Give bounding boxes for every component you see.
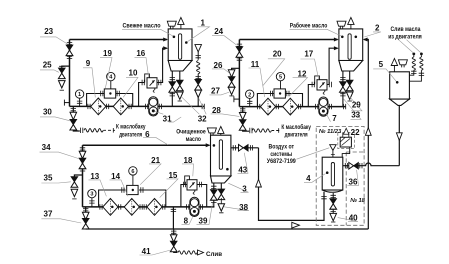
box 20 (pressure indicator block) [274, 89, 285, 98]
svg-text:масло: масло [186, 136, 201, 143]
wire: riser x=239.4 [238, 40, 240, 107]
text: fresh oil [123, 23, 161, 30]
valve 25 [58, 66, 65, 78]
svg-text:14: 14 [111, 172, 120, 181]
wire: main line 1 [64, 100, 204, 110]
valve 31 (tank 1 drain to main line) [169, 71, 176, 106]
filler cap tank 2 [337, 21, 346, 29]
text: oil drain from engine [388, 26, 422, 40]
valve 32 column (tank 1 drain to atmosphere) [176, 71, 183, 101]
spring hose B into tank 5 [409, 53, 424, 82]
wire: main line 3 [83, 206, 215, 208]
relief valve 17 [308, 46, 338, 106]
text: unit N 11/23 [319, 129, 342, 135]
svg-text:4: 4 [306, 174, 311, 183]
svg-text:38: 38 [239, 203, 248, 212]
filler cap tank 3 [207, 128, 216, 136]
valve 38 column (tank 3 drain) [218, 183, 225, 213]
wire: riser x=258.5 down to tank 4 bottom loop [259, 148, 327, 221]
svg-text:Свежее масло: Свежее масло [123, 23, 161, 30]
svg-text:24: 24 [214, 27, 223, 36]
svg-text:17: 17 [304, 50, 313, 59]
svg-text:33: 33 [351, 110, 360, 119]
wire: bypass over filters 13/14/15 [99, 187, 166, 207]
wire: top line 3 into tank 3 [83, 143, 211, 147]
svg-text:28: 28 [212, 106, 221, 115]
svg-text:26: 26 [214, 61, 223, 70]
vent tank 3 [218, 126, 224, 135]
svg-text:Очищенное: Очищенное [176, 128, 206, 135]
wire: branch to valve 25 [62, 66, 70, 68]
pump 7 [316, 97, 332, 116]
flow arrow up on return riser [365, 128, 371, 136]
valve 40 column (tank 4 drain) [330, 193, 337, 222]
svg-text:39: 39 [199, 217, 208, 226]
drain triangle 27 [228, 87, 235, 96]
gauge 3 [88, 189, 96, 206]
svg-text:2: 2 [375, 24, 380, 33]
svg-text:Рабочее масло: Рабочее масло [290, 23, 328, 30]
svg-text:3: 3 [90, 192, 93, 198]
svg-text:2: 2 [248, 92, 251, 98]
svg-text:23: 23 [44, 27, 53, 36]
dashed box around unit 22 [338, 133, 355, 149]
svg-text:18: 18 [184, 156, 193, 165]
wire: main line 3 to bottom header [171, 207, 176, 229]
svg-text:системы: системы [270, 151, 292, 158]
valve 36 line (tank 4 to risers) [343, 162, 400, 169]
wire: return riser x=368.3 to tank 2 [363, 38, 369, 230]
wire: tank 5 drain riser [398, 105, 400, 165]
filter 14 [124, 199, 142, 216]
svg-text:1: 1 [200, 18, 205, 27]
valve 30 (drop to engine tank hose) [70, 106, 80, 131]
svg-text:двигателя: двигателя [285, 131, 308, 138]
svg-text:32: 32 [198, 114, 207, 123]
relief valve 16 [139, 46, 168, 106]
wire: left riser x=69.5 [69, 40, 71, 107]
valve 29 column with drain 33 [346, 71, 353, 101]
pump 31 (section 1 pump) [146, 97, 162, 116]
valve 34 [79, 148, 86, 171]
svg-text:16: 16 [136, 49, 145, 58]
svg-text:Слив масла: Слив масла [391, 26, 421, 33]
svg-text:6: 6 [145, 130, 150, 139]
text: to engine oil tank (right) [281, 124, 311, 138]
tank 1 (fresh oil) [168, 29, 192, 71]
svg-text:1: 1 [78, 92, 81, 98]
svg-text:19: 19 [103, 49, 112, 58]
svg-text:Воздух от: Воздух от [269, 144, 295, 151]
svg-text:№ 18: № 18 [350, 198, 365, 204]
filler cap tank 5 [398, 60, 407, 68]
svg-text:22: 22 [351, 128, 360, 137]
svg-text:Слив: Слив [206, 251, 222, 258]
text: unit N 18 [350, 198, 365, 204]
wire: bypass over filters 9/10 [87, 91, 133, 107]
svg-text:40: 40 [349, 214, 358, 223]
svg-text:двигателя: двигателя [119, 131, 142, 138]
wire: riser x=82.5 [82, 145, 84, 207]
gauge 4 [107, 72, 115, 89]
svg-text:34: 34 [42, 143, 51, 152]
flow arrow down on tank 5 riser [396, 133, 402, 141]
svg-text:27: 27 [211, 86, 220, 95]
svg-text:29: 29 [352, 101, 361, 110]
vent of unit 22 [343, 128, 348, 134]
gauge 2 [246, 90, 254, 107]
hose: coil to engine oil tank (left) [81, 128, 115, 133]
hose: coil to drain (Sliv) [178, 250, 204, 255]
valve 35 [71, 177, 78, 188]
svg-text:21: 21 [151, 156, 160, 165]
filter 9 [88, 98, 109, 115]
svg-text:9: 9 [86, 59, 91, 68]
valve under tank 3 (to pump line) [210, 183, 217, 207]
text: purified oil [176, 128, 206, 143]
svg-text:36: 36 [349, 178, 358, 187]
gauge 5 [276, 72, 284, 89]
box 21 (pressure indicator block) [127, 185, 138, 194]
vent tank 1 [178, 17, 184, 29]
unit 22 (heater) [340, 133, 351, 157]
wire: top supply line to tank 2 [239, 38, 338, 42]
relief valve 18 [181, 176, 207, 207]
svg-text:30: 30 [43, 107, 52, 116]
wire: bottom return header [86, 228, 369, 230]
tank 3 (purified oil) [211, 135, 231, 183]
box 19 (pressure indicator block) [104, 89, 115, 98]
tank 5 (engine drain oil) [390, 72, 410, 106]
pump 8 [187, 197, 203, 216]
text: working oil [290, 23, 328, 30]
valve 26 [228, 70, 235, 88]
gauge 6 [129, 167, 137, 186]
air inlet funnel on tank 4 [330, 145, 336, 158]
hose: coil to engine oil tank (right) [250, 128, 279, 133]
text: to engine oil tank (left) [116, 124, 146, 139]
filler cap tank 1 [167, 21, 176, 29]
svg-text:8: 8 [184, 217, 189, 226]
svg-text:К маслобаку: К маслобаку [116, 124, 146, 131]
vent tank 5 [391, 59, 397, 72]
svg-text:41: 41 [142, 247, 151, 256]
svg-text:3: 3 [242, 184, 247, 193]
svg-text:6: 6 [131, 169, 134, 175]
svg-text:из двигателя: из двигателя [388, 33, 422, 40]
vent tank 2 [348, 17, 354, 29]
svg-text:43: 43 [238, 165, 247, 174]
wire: top supply line to tank 1 [70, 38, 169, 42]
dashed enclosure N18 [346, 152, 364, 225]
dashed enclosure N11/23 [316, 126, 364, 225]
svg-text:5: 5 [279, 75, 282, 81]
filter 13 [100, 199, 121, 216]
svg-text:10: 10 [129, 69, 138, 78]
drain triangle under valve 35 [71, 189, 78, 199]
tank 2 (working oil) [339, 29, 363, 71]
svg-text:К маслобаку: К маслобаку [281, 124, 311, 131]
drain triangle under valve 25 [59, 81, 66, 91]
svg-text:У6872-7199: У6872-7199 [267, 158, 296, 165]
gauge 1 [75, 90, 83, 107]
svg-text:13: 13 [90, 172, 99, 181]
svg-text:37: 37 [44, 209, 53, 218]
svg-text:31: 31 [163, 114, 172, 123]
svg-text:12: 12 [298, 69, 307, 78]
wire: bypass over filters 11/12 [257, 91, 302, 107]
svg-text:№ 11/23: № 11/23 [319, 129, 342, 135]
svg-text:5: 5 [379, 60, 384, 69]
spring hose A into tank 5 [409, 53, 416, 76]
filter 12 [283, 98, 301, 115]
valve 24 [236, 44, 243, 60]
svg-text:15: 15 [168, 171, 177, 180]
filter 15 [144, 199, 165, 216]
filter 10 [113, 98, 131, 115]
valve 43 line (tank 3 to air system riser) [231, 145, 259, 152]
fill funnel column with flexible hose (near tank 1) [195, 45, 202, 107]
valve 23 [66, 43, 73, 59]
tank 4 [322, 157, 343, 192]
valve 28 (drop to engine tank hose) [239, 107, 249, 132]
text: air from system [267, 144, 296, 166]
flow arrow up on riser x=258.5 [256, 179, 262, 187]
svg-text:20: 20 [273, 50, 282, 59]
valve under tank 2 (to main line) [340, 71, 347, 107]
svg-text:7: 7 [332, 114, 337, 123]
svg-text:25: 25 [43, 60, 52, 69]
wire: main line 2 [234, 96, 346, 109]
wire: branch to valve 26 [232, 68, 240, 70]
valve 37 (drop to return header) [82, 207, 89, 229]
wire: branch to valve 35 [74, 175, 82, 177]
svg-text:35: 35 [44, 174, 53, 183]
text: drain [206, 251, 222, 258]
valve 41 (drain of bottom header) [170, 229, 177, 253]
flow arrow right on bottom header [292, 222, 300, 228]
svg-text:11: 11 [251, 60, 260, 69]
filter 11 [258, 98, 279, 115]
